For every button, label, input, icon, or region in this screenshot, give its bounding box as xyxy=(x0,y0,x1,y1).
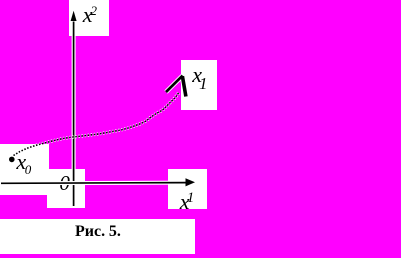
horizontal axis halo xyxy=(1,181,186,186)
label x^1 on horizontal axis xyxy=(180,191,190,213)
point x_0 xyxy=(9,157,15,163)
dotted trajectory halo xyxy=(14,92,180,156)
white box behind origin 0 label xyxy=(47,169,85,208)
label x_1 (target point) xyxy=(192,64,202,86)
caption box xyxy=(0,219,195,254)
white box behind x^1 axis label xyxy=(168,169,207,209)
white box behind x_1 point label xyxy=(181,60,217,110)
white box behind x^2 axis label xyxy=(69,0,109,36)
horizontal axis xyxy=(1,182,186,185)
label x_0 (start point) xyxy=(16,151,26,173)
dotted trajectory xyxy=(14,92,180,156)
vertical axis xyxy=(73,19,75,206)
bold arrow halo xyxy=(166,76,182,92)
white box behind x_0 label xyxy=(0,144,49,195)
bold arrow right barb xyxy=(182,76,186,96)
caption text xyxy=(75,224,121,240)
bold arrow left barb xyxy=(166,76,183,92)
horizontal axis arrowhead xyxy=(186,178,196,186)
point x_0 halo xyxy=(8,155,16,163)
vertical axis halo xyxy=(72,19,76,206)
vertical axis arrowhead xyxy=(71,11,77,21)
label x^2 on vertical axis xyxy=(83,4,93,26)
origin label 0 xyxy=(59,173,70,194)
